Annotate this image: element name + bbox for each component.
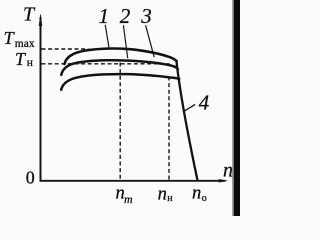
scan border bar right bbox=[234, 0, 240, 216]
svg-text:4: 4 bbox=[199, 90, 210, 114]
svg-text:n: n bbox=[192, 184, 201, 204]
curve 3 bbox=[61, 74, 179, 90]
leader line to curve 3 bbox=[146, 25, 155, 57]
leader line to line 4 bbox=[183, 104, 195, 111]
svg-text:n: n bbox=[223, 160, 233, 182]
svg-text:m: m bbox=[124, 192, 133, 206]
svg-text:2: 2 bbox=[120, 4, 131, 28]
line 4 steep drop bbox=[176, 60, 197, 181]
dashed vertical n_m bbox=[119, 63, 121, 180]
y-axis arrowhead bbox=[39, 15, 42, 27]
svg-text:0: 0 bbox=[26, 168, 35, 188]
svg-text:n: n bbox=[158, 184, 167, 204]
leader line to curve 2 bbox=[123, 25, 127, 58]
y-axis T bbox=[40, 17, 42, 182]
svg-text:н: н bbox=[27, 57, 33, 69]
svg-text:1: 1 bbox=[99, 4, 110, 28]
leader line to curve 1 bbox=[105, 25, 109, 49]
svg-text:T: T bbox=[23, 4, 36, 26]
dashed line T_n level bbox=[42, 63, 170, 65]
dashed vertical n_n bbox=[168, 77, 170, 180]
svg-text:3: 3 bbox=[140, 4, 152, 28]
svg-text:н: н bbox=[167, 193, 173, 204]
curve 1 bbox=[65, 48, 177, 64]
x-axis arrowhead bbox=[219, 179, 228, 182]
x-axis n bbox=[40, 180, 225, 182]
dashed line T_max level bbox=[42, 48, 89, 50]
curve 2 bbox=[61, 60, 178, 75]
svg-text:о: о bbox=[202, 193, 207, 204]
